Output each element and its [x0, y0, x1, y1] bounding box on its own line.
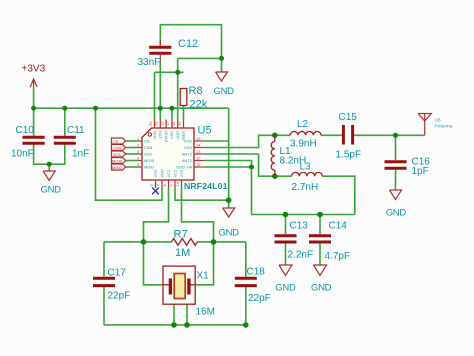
svg-text:2.7nH: 2.7nH	[292, 182, 319, 193]
svg-text:1.5pF: 1.5pF	[336, 150, 362, 161]
svg-text:C14: C14	[329, 221, 348, 232]
svg-text:22pF: 22pF	[108, 291, 131, 302]
svg-text:C18: C18	[247, 267, 266, 278]
svg-text:VDD_PA: VDD_PA	[176, 164, 192, 169]
svg-text:MOSI: MOSI	[144, 158, 154, 163]
svg-text:1M: 1M	[175, 247, 190, 259]
svg-text:GND: GND	[219, 228, 240, 239]
svg-text:15: 15	[177, 121, 182, 126]
svg-text:19: 19	[154, 121, 159, 126]
svg-text:C12: C12	[178, 38, 198, 50]
svg-text:GND: GND	[386, 208, 407, 219]
svg-text:NRF24L01: NRF24L01	[184, 181, 228, 191]
svg-text:13: 13	[196, 149, 201, 154]
svg-text:VSS: VSS	[179, 169, 184, 177]
svg-text:C17: C17	[108, 268, 127, 279]
svg-text:SCK: SCK	[144, 151, 153, 156]
svg-text:CE: CE	[113, 139, 119, 144]
svg-text:MISO: MISO	[144, 164, 154, 169]
svg-text:14: 14	[196, 142, 201, 147]
svg-text:GND: GND	[275, 283, 296, 294]
svg-text:VDD: VDD	[160, 169, 165, 178]
svg-text:GND: GND	[311, 283, 332, 294]
svg-text:15: 15	[196, 136, 201, 141]
svg-text:X1: X1	[197, 271, 210, 282]
svg-text:2.2nF: 2.2nF	[288, 250, 314, 261]
svg-text:22k: 22k	[190, 99, 208, 111]
svg-text:C10: C10	[16, 125, 35, 136]
svg-text:16M: 16M	[196, 307, 215, 318]
svg-text:VDD: VDD	[175, 131, 180, 140]
svg-text:R8: R8	[189, 85, 203, 97]
svg-text:4.7pF: 4.7pF	[325, 251, 351, 262]
svg-text:22pF: 22pF	[248, 293, 271, 304]
svg-text:VSS: VSS	[158, 131, 163, 139]
svg-text:U5: U5	[198, 125, 212, 137]
svg-text:C11: C11	[67, 125, 85, 136]
svg-text:U6: U6	[435, 118, 441, 124]
svg-text:+3V3: +3V3	[22, 64, 46, 75]
svg-text:3.9nH: 3.9nH	[290, 139, 317, 150]
svg-text:VSS: VSS	[169, 131, 174, 139]
svg-text:XC1: XC1	[173, 169, 178, 178]
svg-text:IREF: IREF	[181, 130, 186, 140]
svg-text:CSN: CSN	[113, 145, 122, 150]
svg-text:VSS: VSS	[184, 145, 192, 150]
svg-text:ANT2: ANT2	[182, 151, 193, 156]
svg-text:CSN: CSN	[144, 145, 153, 150]
svg-text:XC2: XC2	[166, 169, 171, 178]
svg-text:1nF: 1nF	[72, 149, 89, 160]
svg-text:10nF: 10nF	[11, 149, 34, 160]
svg-text:MOSI: MOSI	[112, 158, 122, 163]
svg-text:12: 12	[196, 155, 201, 160]
svg-text:C15: C15	[339, 112, 358, 123]
svg-text:DVDD: DVDD	[163, 131, 168, 142]
svg-text:MISO: MISO	[112, 165, 122, 170]
svg-text:VSS: VSS	[153, 169, 158, 177]
svg-text:VDD: VDD	[152, 131, 157, 140]
svg-text:CE: CE	[144, 138, 150, 143]
svg-text:GND: GND	[41, 185, 62, 196]
svg-text:1pF: 1pF	[412, 166, 429, 177]
svg-text:Antenna: Antenna	[435, 124, 453, 130]
svg-text:17: 17	[165, 121, 170, 126]
svg-text:C13: C13	[290, 221, 309, 232]
svg-text:ANT1: ANT1	[182, 158, 193, 163]
svg-text:10: 10	[175, 181, 180, 186]
svg-text:20: 20	[148, 121, 153, 126]
svg-text:SCK: SCK	[113, 152, 122, 157]
svg-text:L2: L2	[297, 119, 309, 130]
svg-text:33nF: 33nF	[138, 57, 161, 68]
svg-text:R7: R7	[174, 229, 188, 241]
svg-text:GND: GND	[214, 86, 235, 97]
svg-text:L3: L3	[300, 162, 312, 173]
svg-text:18: 18	[159, 121, 164, 126]
svg-text:16: 16	[171, 121, 176, 126]
